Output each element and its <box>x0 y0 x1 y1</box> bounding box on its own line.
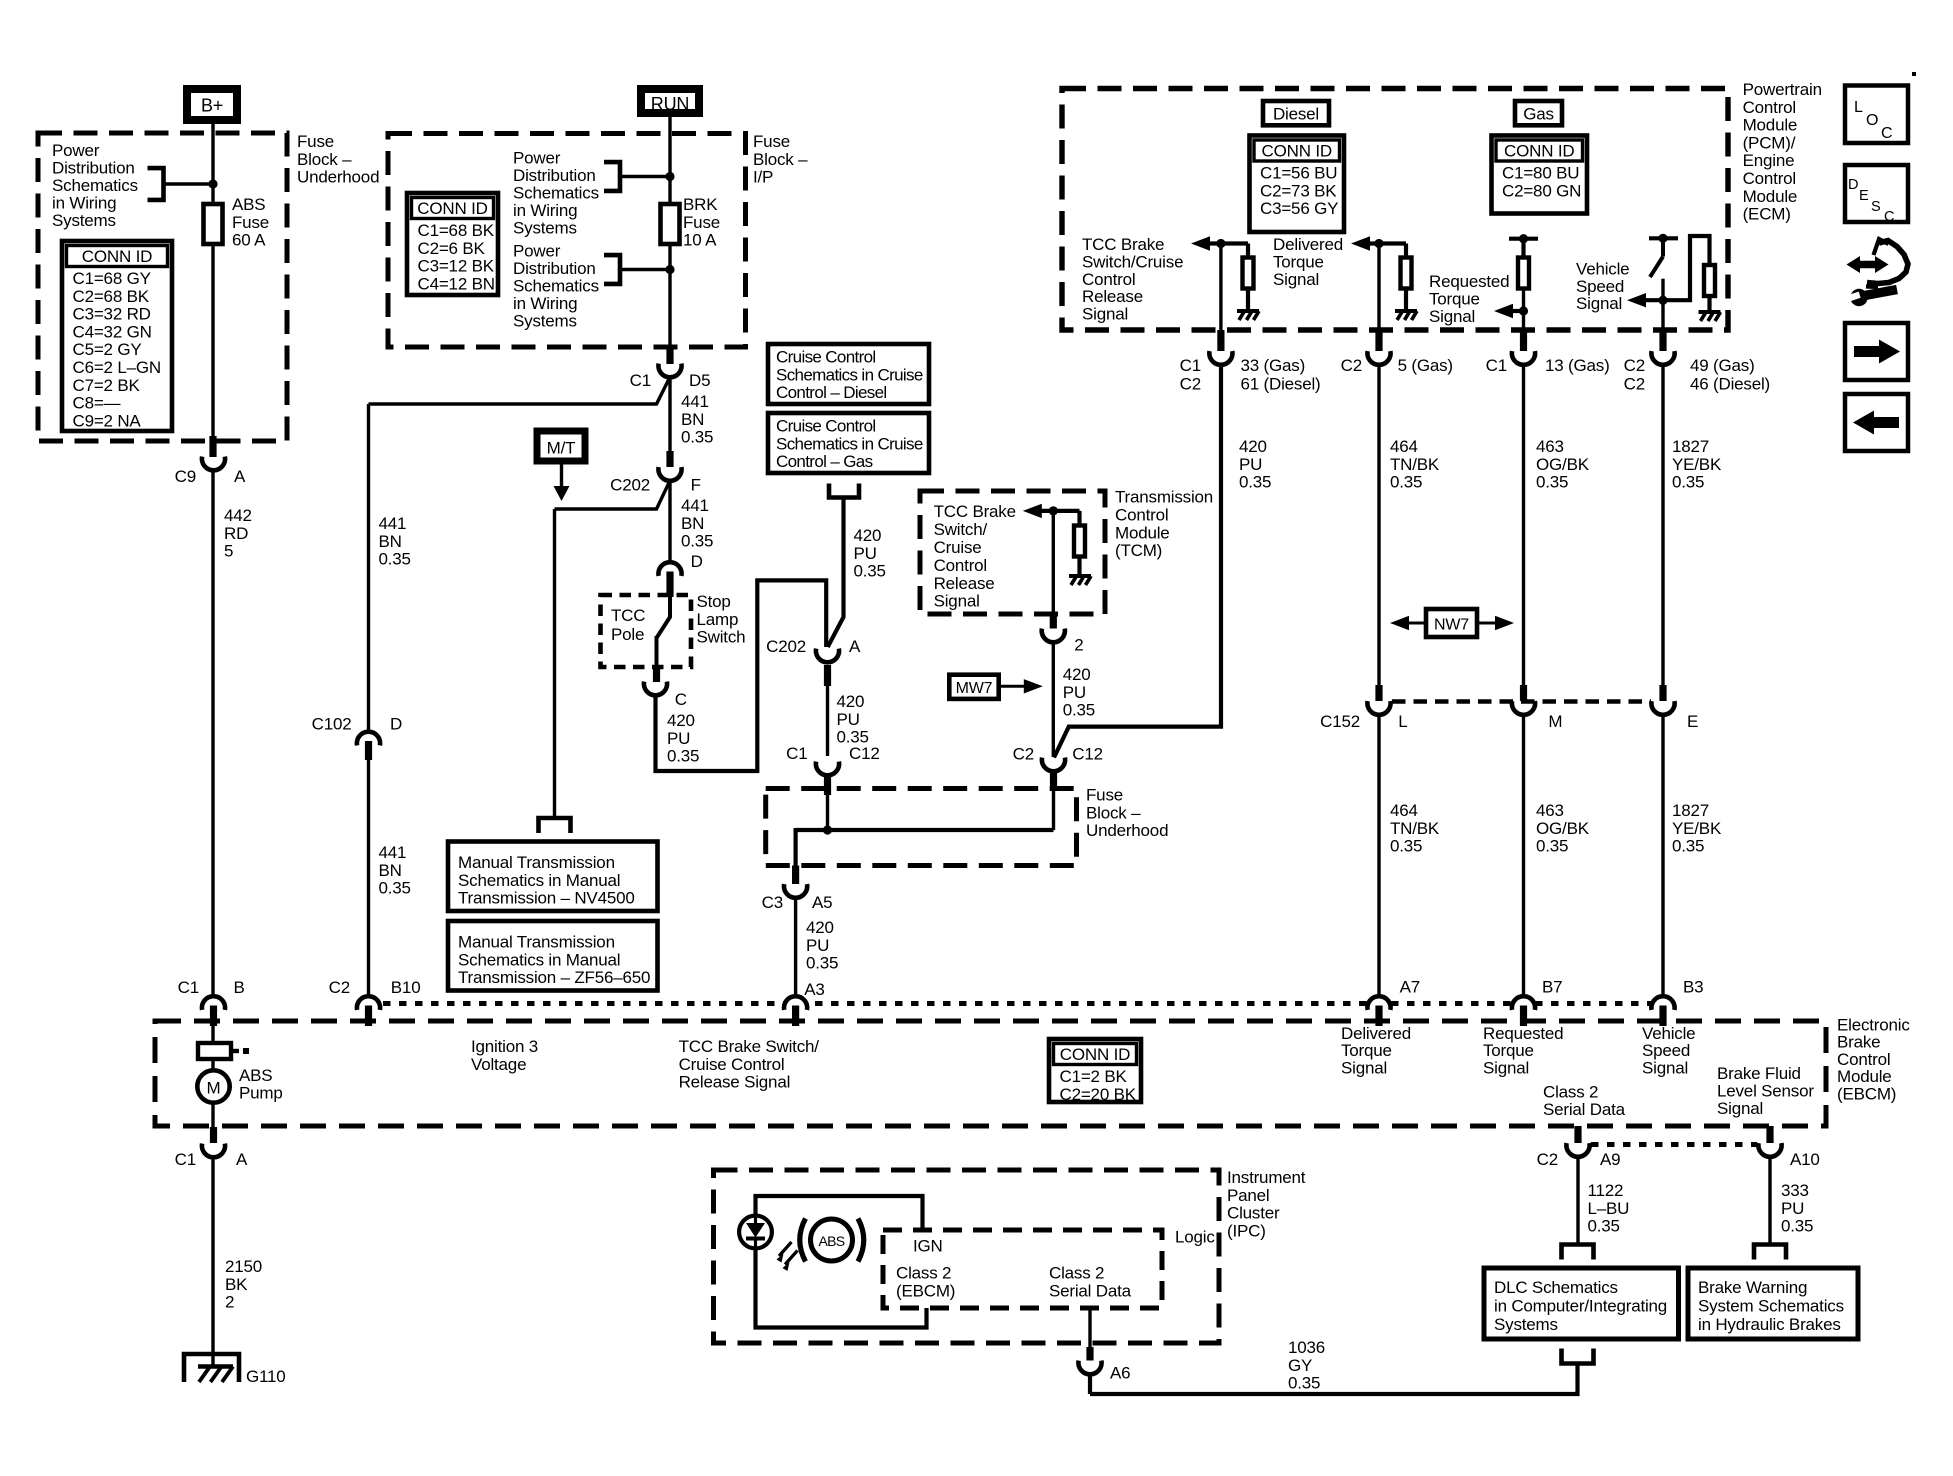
svg-text:5: 5 <box>224 542 233 561</box>
svg-text:0.35: 0.35 <box>681 532 713 551</box>
svg-text:Schematics: Schematics <box>513 184 599 203</box>
svg-text:M/T: M/T <box>547 439 576 458</box>
svg-text:A10: A10 <box>1790 1150 1820 1169</box>
wire 463 OG/BK 0.35 upper <box>1522 367 1525 688</box>
svg-text:C3=12 BK: C3=12 BK <box>418 257 495 276</box>
svg-text:A3: A3 <box>804 980 824 999</box>
svg-text:C4=32 GN: C4=32 GN <box>73 322 152 341</box>
svg-text:BK: BK <box>225 1275 248 1294</box>
connector C2 pin A9 <box>1574 1126 1581 1143</box>
svg-text:Brake: Brake <box>1837 1033 1880 1052</box>
connector C1 pin 13gas <box>1520 330 1527 351</box>
connector pin 2 (TCM) <box>1050 612 1057 629</box>
svg-text:in Computer/Integrating: in Computer/Integrating <box>1494 1297 1667 1316</box>
IPC module box <box>714 1170 1220 1343</box>
svg-text:Delivered: Delivered <box>1341 1024 1411 1043</box>
svg-text:Signal: Signal <box>934 592 980 611</box>
icon LOC box <box>1845 86 1908 144</box>
svg-text:Torque: Torque <box>1273 252 1324 271</box>
svg-text:C1: C1 <box>1180 356 1201 375</box>
svg-text:0.35: 0.35 <box>1672 837 1704 856</box>
svg-text:B+: B+ <box>201 96 223 116</box>
TCM signal arrow <box>1023 504 1042 518</box>
svg-text:0.35: 0.35 <box>379 550 411 569</box>
svg-text:1827: 1827 <box>1672 437 1709 456</box>
ABS telltale symbol <box>811 1219 853 1261</box>
bracket to power distribution (left) <box>148 168 164 200</box>
svg-text:Control: Control <box>1115 505 1168 524</box>
icon DESC box <box>1845 165 1908 222</box>
wire B+ to ABS fuse <box>211 124 214 204</box>
svg-text:A: A <box>234 467 246 486</box>
svg-text:CONN ID: CONN ID <box>82 247 152 266</box>
PCM vehicle speed arrow <box>1627 293 1646 307</box>
wire 442 RD 5 <box>211 473 214 995</box>
Gas box <box>1515 101 1562 125</box>
svg-text:C4=12 BN: C4=12 BN <box>418 274 495 293</box>
connector C152 pin M <box>1520 685 1527 701</box>
connector table CONN ID (Gas) <box>1492 136 1588 214</box>
svg-text:OG/BK: OG/BK <box>1536 455 1590 474</box>
EBCM dotted connector line <box>383 1001 1663 1006</box>
PCM TCC junction node <box>1216 239 1225 248</box>
svg-text:C3=56 GY: C3=56 GY <box>1260 199 1338 218</box>
svg-text:C5=2 GY: C5=2 GY <box>73 340 142 359</box>
svg-text:E: E <box>1687 712 1698 731</box>
svg-text:Schematics in Cruise: Schematics in Cruise <box>776 434 923 453</box>
svg-text:0.35: 0.35 <box>1390 473 1422 492</box>
connector C102 pin D <box>357 732 380 746</box>
svg-text:Signal: Signal <box>1273 270 1319 289</box>
svg-text:Level Sensor: Level Sensor <box>1717 1082 1814 1101</box>
fuse ABS 60A <box>204 204 223 244</box>
svg-text:Module: Module <box>1743 187 1798 206</box>
svg-text:Schematics in Manual: Schematics in Manual <box>458 950 620 969</box>
svg-text:E: E <box>1859 188 1869 204</box>
svg-text:C1=68 GY: C1=68 GY <box>73 269 151 288</box>
svg-text:Serial Data: Serial Data <box>1049 1282 1132 1301</box>
svg-text:B7: B7 <box>1542 978 1562 997</box>
svg-text:C1=80 BU: C1=80 BU <box>1502 164 1579 183</box>
svg-text:BRK: BRK <box>683 195 718 214</box>
svg-text:49 (Gas): 49 (Gas) <box>1690 356 1755 375</box>
svg-text:0.35: 0.35 <box>681 428 713 447</box>
connector C2 pin 5gas <box>1375 330 1382 351</box>
svg-text:Control – Gas: Control – Gas <box>776 452 873 471</box>
svg-text:ABS: ABS <box>232 195 265 214</box>
svg-text:C2=68 BK: C2=68 BK <box>73 287 150 306</box>
svg-text:420: 420 <box>806 918 834 937</box>
svg-text:C1: C1 <box>630 371 651 390</box>
svg-text:Distribution: Distribution <box>513 166 596 185</box>
svg-text:PU: PU <box>1063 683 1086 702</box>
svg-text:C9=2 NA: C9=2 NA <box>73 411 142 430</box>
svg-text:F: F <box>691 476 701 495</box>
svg-text:L–BU: L–BU <box>1588 1199 1630 1218</box>
connector A10 <box>1766 1126 1773 1143</box>
svg-text:Ignition 3: Ignition 3 <box>471 1037 538 1056</box>
svg-text:Delivered: Delivered <box>1273 235 1343 254</box>
PCM vehicle speed ground <box>1699 310 1721 314</box>
svg-text:C1: C1 <box>1486 356 1507 375</box>
svg-text:RD: RD <box>224 524 248 543</box>
wire 1036 GY 0.35 <box>1090 1364 1578 1395</box>
svg-text:Signal: Signal <box>1483 1058 1529 1077</box>
svg-text:C1=2 BK: C1=2 BK <box>1060 1067 1128 1086</box>
continuation bracket below DLC box <box>1562 1349 1594 1364</box>
svg-text:Speed: Speed <box>1642 1041 1690 1060</box>
svg-text:Distribution: Distribution <box>513 259 596 278</box>
wire PCM 420 PU to C2 C12 <box>1054 363 1221 758</box>
svg-text:Speed: Speed <box>1576 277 1624 296</box>
node junction on RUN wire lower <box>665 265 674 274</box>
fuse block underhood box (middle) <box>766 789 1077 866</box>
svg-text:Schematics: Schematics <box>513 277 599 296</box>
connector C2 C2 pin 49gas 46diesel <box>1659 330 1666 351</box>
PCM delivered arrow <box>1351 236 1370 250</box>
svg-text:1122: 1122 <box>1588 1181 1624 1200</box>
svg-text:L: L <box>1854 99 1863 116</box>
C152 dotted connector line <box>1392 699 1651 704</box>
node junction on B+ wire <box>208 179 217 188</box>
svg-text:0.35: 0.35 <box>854 562 886 581</box>
connector table CONN ID (EBCM) <box>1049 1039 1141 1102</box>
svg-text:CONN ID: CONN ID <box>1060 1045 1130 1064</box>
svg-text:in Wiring: in Wiring <box>513 294 577 313</box>
svg-text:463: 463 <box>1536 437 1564 456</box>
svg-text:CONN ID: CONN ID <box>1504 142 1574 161</box>
svg-text:Pole: Pole <box>611 625 644 644</box>
svg-text:A5: A5 <box>812 893 832 912</box>
PCM requested T-bar <box>1509 237 1538 241</box>
branch wire to C102 column <box>369 377 671 404</box>
wire 441 BN 0.35 (second) <box>668 483 671 578</box>
wire 420 PU 0.35 below C202A <box>826 686 829 756</box>
svg-text:TCC: TCC <box>611 606 645 625</box>
svg-text:441: 441 <box>681 496 709 515</box>
wire 464 TN/BK 0.35 lower <box>1377 717 1380 995</box>
svg-text:ABS: ABS <box>239 1066 272 1085</box>
svg-text:TCC Brake: TCC Brake <box>1082 235 1164 254</box>
reference box Cruise Control Gas <box>768 413 929 473</box>
connector C2 pin B10 <box>357 996 380 1010</box>
connector C1 pin B <box>202 996 225 1010</box>
svg-text:Brake Fluid: Brake Fluid <box>1717 1064 1801 1083</box>
svg-text:0.35: 0.35 <box>1239 473 1271 492</box>
PCM vehicle speed resistor loop <box>1663 236 1710 300</box>
svg-text:IGN: IGN <box>913 1237 943 1256</box>
svg-text:(PCM)/: (PCM)/ <box>1743 133 1796 152</box>
wire 464 TN/BK 0.35 upper <box>1377 367 1380 688</box>
svg-text:Control: Control <box>1082 270 1135 289</box>
junction node in fuse block <box>823 825 832 834</box>
svg-text:442: 442 <box>224 506 252 525</box>
svg-text:60 A: 60 A <box>232 231 266 250</box>
lamp flash arrows <box>779 1242 798 1265</box>
svg-text:Torque: Torque <box>1429 289 1480 308</box>
wire 420 PU 0.35 TCM to C2 C12 <box>1052 644 1055 757</box>
svg-text:Power: Power <box>52 141 100 160</box>
stray dot top right <box>1912 72 1916 76</box>
icon wrench with arrows <box>1855 261 1880 269</box>
wire 441 BN 0.35 below C102 <box>367 756 370 994</box>
NW7 reference box with arrows <box>1390 616 1409 630</box>
svg-text:Signal: Signal <box>1642 1058 1688 1077</box>
svg-text:10 A: 10 A <box>683 231 717 250</box>
M/T arrow <box>560 464 563 486</box>
svg-text:464: 464 <box>1390 801 1418 820</box>
reference box Manual Transmission ZF56-650 <box>448 921 658 991</box>
svg-text:A7: A7 <box>1400 978 1420 997</box>
svg-text:Systems: Systems <box>1494 1315 1558 1334</box>
svg-text:420: 420 <box>854 526 882 545</box>
svg-text:Panel: Panel <box>1227 1186 1269 1205</box>
svg-text:CONN ID: CONN ID <box>417 199 487 218</box>
svg-text:Control: Control <box>1743 98 1796 117</box>
wire fuse to C1 D5 <box>668 244 671 350</box>
svg-text:C3: C3 <box>762 893 783 912</box>
svg-text:Module: Module <box>1115 523 1170 542</box>
svg-text:Underhood: Underhood <box>297 168 379 187</box>
svg-text:Release: Release <box>934 574 995 593</box>
svg-text:Cruise Control: Cruise Control <box>679 1055 785 1074</box>
wire fuse to connector C9 <box>211 244 214 437</box>
connector table CONN ID (IP) <box>407 193 498 295</box>
svg-text:Block –: Block – <box>1086 803 1141 822</box>
icon arrow right box <box>1845 323 1908 380</box>
svg-text:Manual Transmission: Manual Transmission <box>458 933 615 952</box>
wire 420 PU 0.35 to A3 <box>794 900 797 994</box>
svg-text:Control: Control <box>934 556 987 575</box>
svg-text:TCC Brake Switch/: TCC Brake Switch/ <box>679 1037 820 1056</box>
icon arrow left box <box>1845 394 1908 451</box>
svg-text:Class 2: Class 2 <box>1543 1083 1598 1102</box>
reference box Cruise Control Diesel <box>768 344 929 404</box>
svg-text:BN: BN <box>379 861 402 880</box>
svg-text:C2: C2 <box>1341 356 1362 375</box>
wire 1122 L-BU 0.35 <box>1576 1159 1579 1247</box>
svg-text:C1: C1 <box>178 978 199 997</box>
svg-text:441: 441 <box>379 514 407 533</box>
connector table CONN ID (underhood left) <box>62 241 172 431</box>
reference box Manual Transmission NV4500 <box>448 842 658 912</box>
connector C202 pin F <box>666 451 673 467</box>
svg-text:PU: PU <box>667 729 690 748</box>
svg-text:G110: G110 <box>246 1367 286 1386</box>
svg-text:(IPC): (IPC) <box>1227 1221 1266 1240</box>
svg-text:Cluster: Cluster <box>1227 1204 1280 1223</box>
svg-text:Gas: Gas <box>1523 105 1554 124</box>
svg-text:C3=32 RD: C3=32 RD <box>73 305 151 324</box>
svg-text:Fuse: Fuse <box>232 213 269 232</box>
svg-text:Fuse: Fuse <box>753 132 790 151</box>
connector B3 <box>1651 996 1674 1010</box>
svg-text:PU: PU <box>1781 1199 1804 1218</box>
branch C202F to manual transmission wire <box>555 481 671 510</box>
continuation bracket below cruise gas box <box>829 484 859 498</box>
svg-text:463: 463 <box>1536 801 1564 820</box>
resistor in TCM <box>1077 511 1081 525</box>
fuse block IP box <box>388 134 746 348</box>
svg-text:C102: C102 <box>312 715 352 734</box>
connector A3 <box>784 996 807 1010</box>
ground in TCM <box>1069 574 1091 578</box>
wire inside middle fuse block <box>826 795 829 830</box>
svg-text:Underhood: Underhood <box>1086 821 1168 840</box>
svg-text:Signal: Signal <box>1576 294 1622 313</box>
svg-text:C7=2 BK: C7=2 BK <box>73 376 141 395</box>
svg-text:C2: C2 <box>1180 375 1201 394</box>
svg-text:D: D <box>390 715 402 734</box>
svg-text:B: B <box>234 978 245 997</box>
TCM junction node <box>1049 506 1058 515</box>
svg-text:Brake Warning: Brake Warning <box>1698 1278 1807 1297</box>
svg-text:C: C <box>675 690 687 709</box>
svg-text:C202: C202 <box>610 476 650 495</box>
svg-text:Manual Transmission: Manual Transmission <box>458 853 615 872</box>
wire to C3 A5 <box>796 828 828 832</box>
svg-text:C1=68 BK: C1=68 BK <box>418 221 495 240</box>
svg-text:Transmission – ZF56–650: Transmission – ZF56–650 <box>458 968 650 987</box>
svg-text:Signal: Signal <box>1429 307 1475 326</box>
svg-text:(EBCM): (EBCM) <box>896 1282 955 1301</box>
svg-text:Vehicle: Vehicle <box>1576 259 1629 278</box>
fuse block underhood box (left) <box>38 133 287 441</box>
svg-text:333: 333 <box>1781 1181 1809 1200</box>
svg-text:D: D <box>1848 177 1858 193</box>
svg-text:O: O <box>1866 112 1878 129</box>
connector C9 pin A <box>209 436 216 457</box>
svg-text:0.35: 0.35 <box>1536 837 1568 856</box>
svg-text:46 (Diesel): 46 (Diesel) <box>1690 375 1770 394</box>
wire 463 OG/BK 0.35 lower <box>1522 717 1525 995</box>
continuation bracket above brake warning box <box>1754 1245 1786 1260</box>
EBCM module box <box>155 1021 1826 1126</box>
svg-text:PU: PU <box>837 710 860 729</box>
wire 2150 BK 2 <box>211 1159 214 1367</box>
svg-text:Torque: Torque <box>1483 1041 1534 1060</box>
svg-text:C2=73 BK: C2=73 BK <box>1260 181 1337 200</box>
svg-text:B3: B3 <box>1683 978 1703 997</box>
svg-text:Serial Data: Serial Data <box>1543 1100 1626 1119</box>
connector C152 pin L <box>1375 685 1382 701</box>
svg-text:Control: Control <box>1837 1050 1890 1069</box>
wire serial data to A6 <box>1088 1308 1091 1348</box>
svg-text:Engine: Engine <box>1743 151 1795 170</box>
svg-text:System Schematics: System Schematics <box>1698 1297 1844 1316</box>
wire lamp to IGN <box>756 1196 923 1230</box>
svg-text:Vehicle: Vehicle <box>1642 1024 1695 1043</box>
TCC pole box <box>601 595 692 667</box>
svg-text:0.35: 0.35 <box>379 879 411 898</box>
connector A6 <box>1086 1347 1093 1361</box>
svg-text:0.35: 0.35 <box>667 747 699 766</box>
connector C3 pin A5 <box>792 866 799 885</box>
svg-text:Pump: Pump <box>239 1084 283 1103</box>
svg-text:Lamp: Lamp <box>697 610 739 629</box>
svg-text:441: 441 <box>379 843 407 862</box>
svg-text:C1: C1 <box>786 744 807 763</box>
svg-text:Requested: Requested <box>1483 1024 1563 1043</box>
svg-text:2: 2 <box>1074 636 1083 655</box>
svg-text:464: 464 <box>1390 437 1418 456</box>
svg-text:2: 2 <box>225 1293 234 1312</box>
svg-text:61 (Diesel): 61 (Diesel) <box>1241 375 1321 394</box>
svg-text:Signal: Signal <box>1717 1099 1763 1118</box>
PCM vehicle speed T-bar <box>1649 236 1678 240</box>
TCM module box <box>920 491 1105 614</box>
svg-text:Cruise: Cruise <box>934 538 982 557</box>
stop lamp switch blade <box>657 595 671 668</box>
PCM delivered junction node <box>1374 239 1383 248</box>
svg-text:YE/BK: YE/BK <box>1672 455 1722 474</box>
svg-text:Release Signal: Release Signal <box>679 1073 791 1092</box>
svg-text:(EBCM): (EBCM) <box>1837 1084 1896 1103</box>
bracket upper to wire (IP) <box>604 162 620 191</box>
svg-text:441: 441 <box>681 392 709 411</box>
svg-text:PU: PU <box>806 936 829 955</box>
wire lamp return to class2 EBCM <box>756 1248 927 1328</box>
svg-text:0.35: 0.35 <box>1536 473 1568 492</box>
svg-text:Requested: Requested <box>1429 272 1509 291</box>
svg-text:C: C <box>1884 209 1894 225</box>
svg-text:Block –: Block – <box>297 150 352 169</box>
connector table CONN ID (Diesel) <box>1250 136 1345 233</box>
connector C <box>644 682 667 696</box>
svg-text:Control – Diesel: Control – Diesel <box>776 383 887 402</box>
svg-text:0.35: 0.35 <box>1781 1217 1813 1236</box>
svg-text:Power: Power <box>513 242 561 261</box>
svg-text:NW7: NW7 <box>1434 617 1469 634</box>
svg-text:Class 2: Class 2 <box>896 1264 951 1283</box>
connector C1 pin A below EBCM <box>210 1127 217 1143</box>
svg-text:0.35: 0.35 <box>1063 701 1095 720</box>
MW7 reference box <box>949 675 998 699</box>
svg-text:Signal: Signal <box>1341 1058 1387 1077</box>
svg-text:D5: D5 <box>689 371 710 390</box>
svg-text:C2: C2 <box>1624 356 1645 375</box>
IPC logic box <box>883 1230 1162 1308</box>
continuation bracket to manual transmission schematics <box>539 818 571 833</box>
svg-text:Switch/Cruise: Switch/Cruise <box>1082 252 1183 271</box>
svg-text:OG/BK: OG/BK <box>1536 819 1590 838</box>
svg-text:Switch/: Switch/ <box>934 520 988 539</box>
wire 333 PU 0.35 <box>1768 1159 1771 1247</box>
svg-text:Signal: Signal <box>1082 305 1128 324</box>
svg-text:Release: Release <box>1082 287 1143 306</box>
wire 1827 YE/BK 0.35 lower <box>1661 717 1664 995</box>
svg-text:Power: Power <box>513 149 561 168</box>
PCM delivered ground <box>1395 309 1417 313</box>
svg-text:DLC Schematics: DLC Schematics <box>1494 1278 1618 1297</box>
svg-text:Torque: Torque <box>1341 1041 1392 1060</box>
svg-text:I/P: I/P <box>753 168 773 187</box>
svg-text:Switch: Switch <box>697 628 746 647</box>
svg-text:M: M <box>207 1079 221 1098</box>
PCM TCC resistor <box>1246 244 1250 258</box>
connector C1 pin D5 <box>666 346 673 364</box>
svg-text:L: L <box>1398 712 1407 731</box>
reference box Brake Warning System Schematics <box>1688 1268 1858 1339</box>
svg-text:C8=—: C8=— <box>73 394 121 413</box>
svg-text:A6: A6 <box>1110 1364 1130 1383</box>
svg-text:Diesel: Diesel <box>1273 105 1319 124</box>
wire 441 BN 0.35 (first) <box>668 379 671 451</box>
svg-text:S: S <box>1871 199 1880 215</box>
svg-text:in Hydraulic Brakes: in Hydraulic Brakes <box>1698 1315 1841 1334</box>
svg-text:2150: 2150 <box>225 1257 262 1276</box>
reference box DLC Schematics <box>1484 1268 1679 1339</box>
